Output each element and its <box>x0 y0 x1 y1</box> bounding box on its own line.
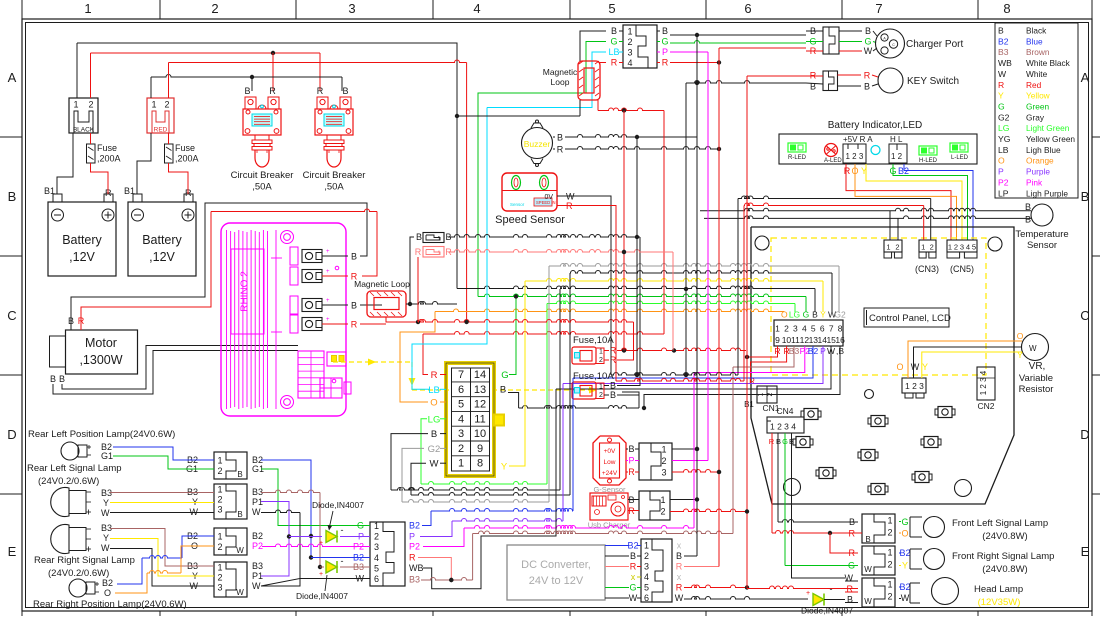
svg-text:R: R <box>317 86 324 96</box>
svg-text:6: 6 <box>744 1 751 16</box>
svg-text:W: W <box>101 508 110 518</box>
svg-text:0V: 0V <box>544 194 553 201</box>
svg-text:B3: B3 <box>409 575 420 585</box>
svg-text:2: 2 <box>895 243 899 252</box>
svg-text:1: 1 <box>599 384 603 391</box>
svg-text:WB: WB <box>409 563 424 573</box>
svg-text:R: R <box>676 562 683 572</box>
svg-text:4: 4 <box>374 553 379 563</box>
svg-text:5: 5 <box>972 243 976 252</box>
svg-text:1: 1 <box>84 1 91 16</box>
svg-text:D: D <box>1080 427 1089 442</box>
svg-text:1: 1 <box>599 349 603 356</box>
svg-text:Y: Y <box>501 462 508 473</box>
svg-text:1: 1 <box>775 324 780 334</box>
svg-text:B: B <box>676 551 682 561</box>
svg-text:Resistor: Resistor <box>1019 384 1054 395</box>
svg-text:B2: B2 <box>899 548 910 558</box>
svg-text:G: G <box>610 37 617 47</box>
svg-text:Variable: Variable <box>1019 373 1053 384</box>
svg-text:Head Lamp: Head Lamp <box>974 584 1023 595</box>
svg-text:6: 6 <box>820 324 825 334</box>
svg-text:Diode,IN4007: Diode,IN4007 <box>296 591 348 601</box>
svg-text:2: 2 <box>644 551 649 561</box>
svg-text:12: 12 <box>474 399 486 411</box>
svg-text:W: W <box>864 597 872 606</box>
svg-text:3: 3 <box>960 243 964 252</box>
svg-text:Y: Y <box>103 498 109 508</box>
svg-text:2: 2 <box>217 466 222 476</box>
svg-text:Circuit Breaker: Circuit Breaker <box>231 170 294 181</box>
svg-text:Low: Low <box>604 459 616 466</box>
svg-text:A-LED: A-LED <box>824 158 842 164</box>
svg-text:R: R <box>557 145 564 155</box>
svg-text:Magnetic Loop: Magnetic Loop <box>354 279 410 289</box>
svg-text:W: W <box>911 362 920 372</box>
svg-text:B: B <box>342 86 348 96</box>
svg-text:H-LED: H-LED <box>919 158 938 164</box>
svg-text:WB: WB <box>998 58 1012 68</box>
svg-text:CN2: CN2 <box>977 401 994 411</box>
svg-text:E: E <box>8 544 17 559</box>
svg-text:3: 3 <box>217 583 222 593</box>
svg-text:G: G <box>998 101 1005 111</box>
svg-text:W: W <box>629 593 638 603</box>
svg-text:A: A <box>8 70 17 85</box>
svg-text:-: - <box>341 556 344 566</box>
svg-text:P: P <box>358 532 364 542</box>
svg-text:B: B <box>628 444 634 454</box>
svg-text:1: 1 <box>627 27 632 37</box>
svg-text:R: R <box>844 166 851 176</box>
svg-text:B: B <box>611 26 617 36</box>
svg-text:x: x <box>677 572 682 582</box>
svg-text:+: + <box>319 540 323 547</box>
svg-text:LB: LB <box>608 47 619 57</box>
svg-text:B2: B2 <box>998 36 1009 46</box>
svg-text:W: W <box>864 565 872 574</box>
svg-text:Black: Black <box>1026 26 1047 36</box>
svg-text:R: R <box>864 71 871 81</box>
svg-text:2: 2 <box>887 560 892 570</box>
svg-text:24V to 12V: 24V to 12V <box>529 575 584 587</box>
svg-text:B: B <box>351 252 357 262</box>
svg-text:B: B <box>998 26 1004 36</box>
svg-text:O: O <box>998 156 1005 166</box>
svg-text:W: W <box>998 69 1007 79</box>
svg-text:Rear Left Signal Lamp: Rear Left Signal Lamp <box>27 463 122 474</box>
svg-text:RED: RED <box>154 127 168 134</box>
svg-text:W: W <box>236 546 244 555</box>
svg-text:W: W <box>101 543 110 553</box>
svg-text:9: 9 <box>477 443 483 455</box>
svg-text:7: 7 <box>458 369 464 381</box>
svg-text:4: 4 <box>644 572 649 582</box>
svg-text:Red: Red <box>1026 80 1042 90</box>
svg-text:7: 7 <box>875 1 882 16</box>
svg-text:B: B <box>865 535 870 544</box>
svg-text:14: 14 <box>474 369 486 381</box>
svg-text:W: W <box>236 588 244 597</box>
svg-text:5: 5 <box>374 563 379 573</box>
svg-text:Rear Left Position Lamp(24V0.6: Rear Left Position Lamp(24V0.6W) <box>28 429 175 440</box>
svg-text:1: 1 <box>886 243 890 252</box>
svg-text:+: + <box>806 590 810 597</box>
svg-text:Battery: Battery <box>62 233 102 247</box>
svg-text:P2: P2 <box>353 542 364 552</box>
svg-text:,200A: ,200A <box>97 154 121 164</box>
svg-text:2: 2 <box>930 243 934 252</box>
svg-text:R: R <box>351 320 358 330</box>
svg-text:RHINO 2: RHINO 2 <box>240 271 251 312</box>
svg-text:LG: LG <box>428 414 441 425</box>
svg-text:-: - <box>830 584 833 594</box>
svg-text:1: 1 <box>661 445 666 455</box>
svg-text:B2: B2 <box>899 582 910 592</box>
svg-text:B: B <box>662 26 668 36</box>
svg-text:Ligh Purple: Ligh Purple <box>1026 188 1068 198</box>
svg-text:10: 10 <box>474 428 486 440</box>
svg-text:O: O <box>1017 331 1024 341</box>
svg-text:Charger Port: Charger Port <box>906 39 963 50</box>
svg-text:VR,: VR, <box>1029 361 1046 372</box>
svg-text:W: W <box>252 507 261 517</box>
svg-text:Sensor: Sensor <box>510 202 525 207</box>
svg-text:+: + <box>326 317 330 323</box>
svg-text:5: 5 <box>458 399 464 411</box>
svg-text:2: 2 <box>458 443 464 455</box>
svg-text:B: B <box>351 301 357 311</box>
svg-text:3: 3 <box>458 428 464 440</box>
svg-text:LG: LG <box>998 123 1010 133</box>
svg-text:5: 5 <box>644 583 649 593</box>
svg-text:Control Panel, LCD: Control Panel, LCD <box>869 313 951 324</box>
svg-text:,1300W: ,1300W <box>79 353 122 367</box>
svg-text:3: 3 <box>348 1 355 16</box>
svg-text:x: x <box>677 541 682 551</box>
svg-text:1: 1 <box>438 236 441 242</box>
svg-text:2: 2 <box>784 324 789 334</box>
svg-text:,50A: ,50A <box>252 182 272 193</box>
svg-text:Green: Green <box>1026 101 1049 111</box>
svg-text:W: W <box>430 459 439 470</box>
svg-text:1 2 3 4: 1 2 3 4 <box>979 370 988 395</box>
svg-text:KEY Switch: KEY Switch <box>907 76 959 87</box>
svg-text:2: 2 <box>661 456 666 466</box>
svg-text:3: 3 <box>793 324 798 334</box>
svg-text:2: 2 <box>217 573 222 583</box>
svg-text:W: W <box>675 593 684 603</box>
svg-text:4: 4 <box>473 1 480 16</box>
svg-text:Battery Indicator,LED: Battery Indicator,LED <box>828 120 923 131</box>
svg-text:16: 16 <box>835 335 845 345</box>
svg-text:R: R <box>628 467 635 477</box>
svg-text:White Black: White Black <box>1026 58 1071 68</box>
svg-text:2: 2 <box>88 100 93 110</box>
svg-text:2: 2 <box>887 528 892 538</box>
svg-text:8: 8 <box>477 458 483 470</box>
svg-text:B: B <box>610 381 616 391</box>
svg-text:R: R <box>998 80 1004 90</box>
svg-text:6: 6 <box>644 593 649 603</box>
svg-text:3: 3 <box>661 468 666 478</box>
svg-text:E: E <box>1081 544 1090 559</box>
svg-text:R-LED: R-LED <box>788 155 807 161</box>
svg-text:G1: G1 <box>101 451 113 461</box>
svg-text:,50A: ,50A <box>324 182 344 193</box>
svg-text:LP: LP <box>998 188 1009 198</box>
svg-text:CN4: CN4 <box>776 406 793 416</box>
svg-text:W: W <box>252 581 261 591</box>
svg-text:Loop: Loop <box>551 77 570 87</box>
svg-text:Temperature: Temperature <box>1015 229 1068 240</box>
svg-text:B1: B1 <box>44 186 55 196</box>
svg-text:Diode,IN4007: Diode,IN4007 <box>801 606 853 616</box>
svg-text:(24V0.8W): (24V0.8W) <box>982 531 1027 542</box>
svg-text:4: 4 <box>627 58 632 68</box>
svg-text:Ligh Blue: Ligh Blue <box>1026 145 1061 155</box>
svg-text:Yellow Green: Yellow Green <box>1026 134 1075 144</box>
svg-text:10: 10 <box>782 335 792 345</box>
svg-text:Fuse: Fuse <box>175 143 195 153</box>
svg-text:LB: LB <box>998 145 1009 155</box>
svg-text:B: B <box>8 189 17 204</box>
svg-text:8: 8 <box>838 324 843 334</box>
svg-text:,200A: ,200A <box>175 154 199 164</box>
svg-text:Brown: Brown <box>1026 47 1050 57</box>
svg-text:1: 1 <box>151 100 156 110</box>
svg-text:3: 3 <box>217 505 222 515</box>
svg-text:G: G <box>501 370 508 381</box>
svg-text:Fuse: Fuse <box>97 143 117 153</box>
svg-text:Motor: Motor <box>85 336 117 350</box>
svg-text:,12V: ,12V <box>69 250 95 264</box>
svg-text:B3: B3 <box>252 561 263 571</box>
svg-text:B: B <box>416 232 422 242</box>
svg-text:2: 2 <box>374 532 379 542</box>
svg-text:B3: B3 <box>998 47 1009 57</box>
svg-text:1: 1 <box>217 563 222 573</box>
svg-text:G: G <box>629 583 636 593</box>
svg-text:2: 2 <box>599 357 603 364</box>
svg-text:R: R <box>431 370 438 381</box>
svg-text:1 2 3: 1 2 3 <box>905 381 924 391</box>
svg-text:,12V: ,12V <box>149 250 175 264</box>
svg-text:D: D <box>7 427 16 442</box>
svg-text:1: 1 <box>887 548 892 558</box>
svg-text:Gray: Gray <box>1026 112 1045 122</box>
svg-text:W: W <box>1029 344 1037 353</box>
svg-text:+: + <box>326 249 330 255</box>
svg-text:B: B <box>557 133 563 143</box>
svg-text:3: 3 <box>627 48 632 58</box>
svg-text:6: 6 <box>374 574 379 584</box>
svg-text:B: B <box>237 470 242 479</box>
svg-text:B2: B2 <box>353 553 364 563</box>
svg-text:P2: P2 <box>409 542 420 552</box>
svg-text:(12V35W): (12V35W) <box>978 597 1021 608</box>
svg-text:(24V0.2/0.6W): (24V0.2/0.6W) <box>38 476 99 487</box>
svg-text:R: R <box>415 247 422 257</box>
svg-text:G2: G2 <box>998 112 1010 122</box>
svg-text:YG: YG <box>998 134 1011 144</box>
svg-text:BLACK: BLACK <box>73 127 95 134</box>
svg-text:B: B <box>59 374 65 384</box>
svg-text:(24V0.2/0.6W): (24V0.2/0.6W) <box>48 568 109 579</box>
svg-text:(CN3): (CN3) <box>915 264 939 274</box>
svg-text:Magnetic: Magnetic <box>543 67 578 77</box>
svg-text:1 2 3 4: 1 2 3 4 <box>770 422 796 432</box>
svg-text:1: 1 <box>644 541 649 551</box>
svg-text:+5V R A: +5V R A <box>843 135 873 144</box>
svg-text:R: R <box>630 562 637 572</box>
svg-text:LB: LB <box>428 385 440 396</box>
svg-text:1: 1 <box>887 580 892 590</box>
svg-text:G: G <box>661 37 668 47</box>
svg-text:Rear Right Signal Lamp: Rear Right Signal Lamp <box>34 555 135 566</box>
svg-text:P: P <box>662 47 668 57</box>
svg-text:Buzzer: Buzzer <box>524 139 551 149</box>
svg-text:Fuse,10A: Fuse,10A <box>573 335 614 346</box>
svg-text:W: W <box>356 574 365 584</box>
svg-text:5: 5 <box>811 324 816 334</box>
svg-text:G: G <box>901 517 908 527</box>
svg-text:4: 4 <box>458 413 464 425</box>
svg-text:1: 1 <box>217 456 222 466</box>
svg-text:P: P <box>628 456 634 466</box>
svg-text:13: 13 <box>474 384 486 396</box>
svg-text:R: R <box>269 86 276 96</box>
svg-text:P2: P2 <box>252 541 263 551</box>
svg-text:+0V: +0V <box>604 448 616 455</box>
svg-text:R: R <box>409 553 416 563</box>
svg-text:W: W <box>901 593 910 603</box>
svg-text:G: G <box>864 37 871 47</box>
svg-text:Speed Sensor: Speed Sensor <box>495 214 565 226</box>
svg-text:1: 1 <box>438 251 441 257</box>
svg-text:P: P <box>409 532 415 542</box>
svg-text:2: 2 <box>627 37 632 47</box>
svg-text:3: 3 <box>374 542 379 552</box>
svg-text:Pink: Pink <box>1026 177 1043 187</box>
svg-text:Front Left Signal Lamp: Front Left Signal Lamp <box>952 518 1048 529</box>
svg-text:B2: B2 <box>409 521 420 531</box>
svg-text:2: 2 <box>954 243 958 252</box>
svg-text:+: + <box>319 571 323 578</box>
svg-text:G: G <box>357 521 364 531</box>
svg-text:2: 2 <box>599 392 603 399</box>
svg-text:2: 2 <box>164 100 169 110</box>
svg-text:B2: B2 <box>102 578 113 588</box>
svg-text:C: C <box>1080 308 1089 323</box>
svg-text:Y: Y <box>922 362 928 372</box>
svg-text:R: R <box>676 583 683 593</box>
svg-text:Purple: Purple <box>1026 167 1050 177</box>
svg-text:B3: B3 <box>353 562 364 572</box>
svg-text:G2: G2 <box>428 444 441 455</box>
svg-text:Y: Y <box>902 561 908 571</box>
svg-text:Sensor: Sensor <box>1027 240 1057 251</box>
svg-text:Light Green: Light Green <box>1026 123 1070 133</box>
svg-text:B: B <box>50 374 56 384</box>
svg-text:B: B <box>1081 189 1090 204</box>
svg-text:2: 2 <box>887 592 892 602</box>
svg-text:2: 2 <box>211 1 218 16</box>
svg-text:O: O <box>430 398 437 409</box>
svg-text:Y: Y <box>103 533 109 543</box>
svg-text:R: R <box>662 58 669 68</box>
svg-text:B: B <box>864 82 870 92</box>
svg-text:2: 2 <box>660 507 665 517</box>
svg-text:1: 1 <box>217 485 222 495</box>
svg-text:1 2 3: 1 2 3 <box>846 152 864 161</box>
svg-text:B: B <box>237 510 242 519</box>
svg-text:5: 5 <box>608 1 615 16</box>
svg-text:Fuse,10A: Fuse,10A <box>573 371 614 382</box>
svg-text:O: O <box>896 362 903 372</box>
svg-text:B: B <box>610 390 616 400</box>
svg-text:9: 9 <box>775 335 780 345</box>
svg-text:B: B <box>500 385 506 396</box>
svg-text:H L: H L <box>890 135 903 144</box>
svg-text:11: 11 <box>474 413 485 425</box>
svg-text:Front Right Signal Lamp: Front Right Signal Lamp <box>952 551 1054 562</box>
svg-text:B: B <box>630 551 636 561</box>
svg-text:B: B <box>1025 215 1031 225</box>
svg-text:R: R <box>611 58 618 68</box>
svg-text:1: 1 <box>887 516 892 526</box>
svg-text:B2: B2 <box>627 541 638 551</box>
svg-text:C: C <box>7 308 16 323</box>
svg-text:x: x <box>631 572 636 582</box>
svg-text:7: 7 <box>829 324 834 334</box>
svg-text:W: W <box>864 46 873 56</box>
svg-text:3: 3 <box>644 562 649 572</box>
svg-text:-: - <box>341 525 344 535</box>
svg-text:1: 1 <box>948 243 952 252</box>
svg-text:2: 2 <box>217 495 222 505</box>
svg-text:1: 1 <box>921 243 925 252</box>
svg-text:B1: B1 <box>744 400 754 409</box>
svg-text:4: 4 <box>802 324 807 334</box>
svg-text:1: 1 <box>73 100 78 110</box>
svg-text:+: + <box>326 269 330 275</box>
svg-text:1: 1 <box>217 532 222 542</box>
svg-text:Rear Right Position Lamp(24V0.: Rear Right Position Lamp(24V0.6W) <box>33 599 187 610</box>
svg-text:+: + <box>326 298 330 304</box>
svg-text:Battery: Battery <box>142 233 182 247</box>
svg-text:L-LED: L-LED <box>951 155 969 161</box>
svg-text:2: 2 <box>217 542 222 552</box>
svg-text:DC Converter,: DC Converter, <box>521 559 591 571</box>
svg-text:B1: B1 <box>124 186 135 196</box>
svg-text:A: A <box>1081 70 1090 85</box>
svg-text:G2: G2 <box>834 310 846 320</box>
svg-text:B: B <box>865 26 871 36</box>
svg-text:4: 4 <box>966 243 970 252</box>
svg-text:B: B <box>244 86 250 96</box>
svg-text:(CN5): (CN5) <box>950 264 974 274</box>
svg-text:Blue: Blue <box>1026 36 1043 46</box>
svg-text:O: O <box>901 529 908 539</box>
svg-text:Circuit Breaker: Circuit Breaker <box>303 170 366 181</box>
svg-text:1: 1 <box>458 458 464 470</box>
svg-text:Orange: Orange <box>1026 156 1054 166</box>
svg-text:Diode,IN4007: Diode,IN4007 <box>312 500 364 510</box>
svg-text:P: P <box>998 167 1004 177</box>
svg-text:P2: P2 <box>998 177 1009 187</box>
svg-text:1: 1 <box>374 521 379 531</box>
